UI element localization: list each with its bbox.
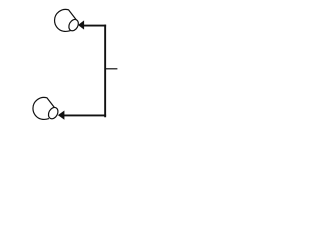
wire vertical bus — [104, 25, 106, 118]
wire top horizontal — [84, 25, 107, 27]
arrow into D2 — [58, 111, 65, 120]
wire bottom horizontal — [64, 114, 107, 116]
cone D2 (bottom) — [33, 97, 60, 120]
arrow into D1 — [78, 20, 84, 29]
stub pin on bus — [106, 68, 118, 70]
cone D1 (top) — [55, 9, 81, 32]
